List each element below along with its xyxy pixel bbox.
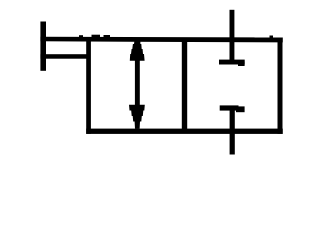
- valve body center divider: [182, 38, 187, 133]
- top plug T: bar: [219, 60, 245, 65]
- top plug T: vertical stem: [230, 10, 235, 63]
- bottom plug T: vertical stem: [230, 106, 235, 155]
- double-headed arrow shaft (left chamber): [135, 55, 140, 110]
- top plug T: bar right-end blob: [238, 62, 245, 67]
- port connector vertical bar (left): [40, 22, 46, 71]
- arrowhead down (stepped trapezoid): [129, 105, 145, 129]
- valve body right edge: [278, 38, 283, 134]
- valve body bottom edge: [86, 129, 283, 134]
- wire: top prong continuing as valve body top edge: [40, 37, 282, 43]
- arrowhead up (stepped trapezoid): [130, 40, 145, 61]
- bottom plug T: bar: [220, 105, 239, 110]
- bottom plug T: bar right segment (scan step): [236, 106, 245, 112]
- scan speckles above top edge: [92, 35, 101, 38]
- wire: bottom prong of port connector: [40, 54, 90, 59]
- valve body left edge: [86, 38, 91, 134]
